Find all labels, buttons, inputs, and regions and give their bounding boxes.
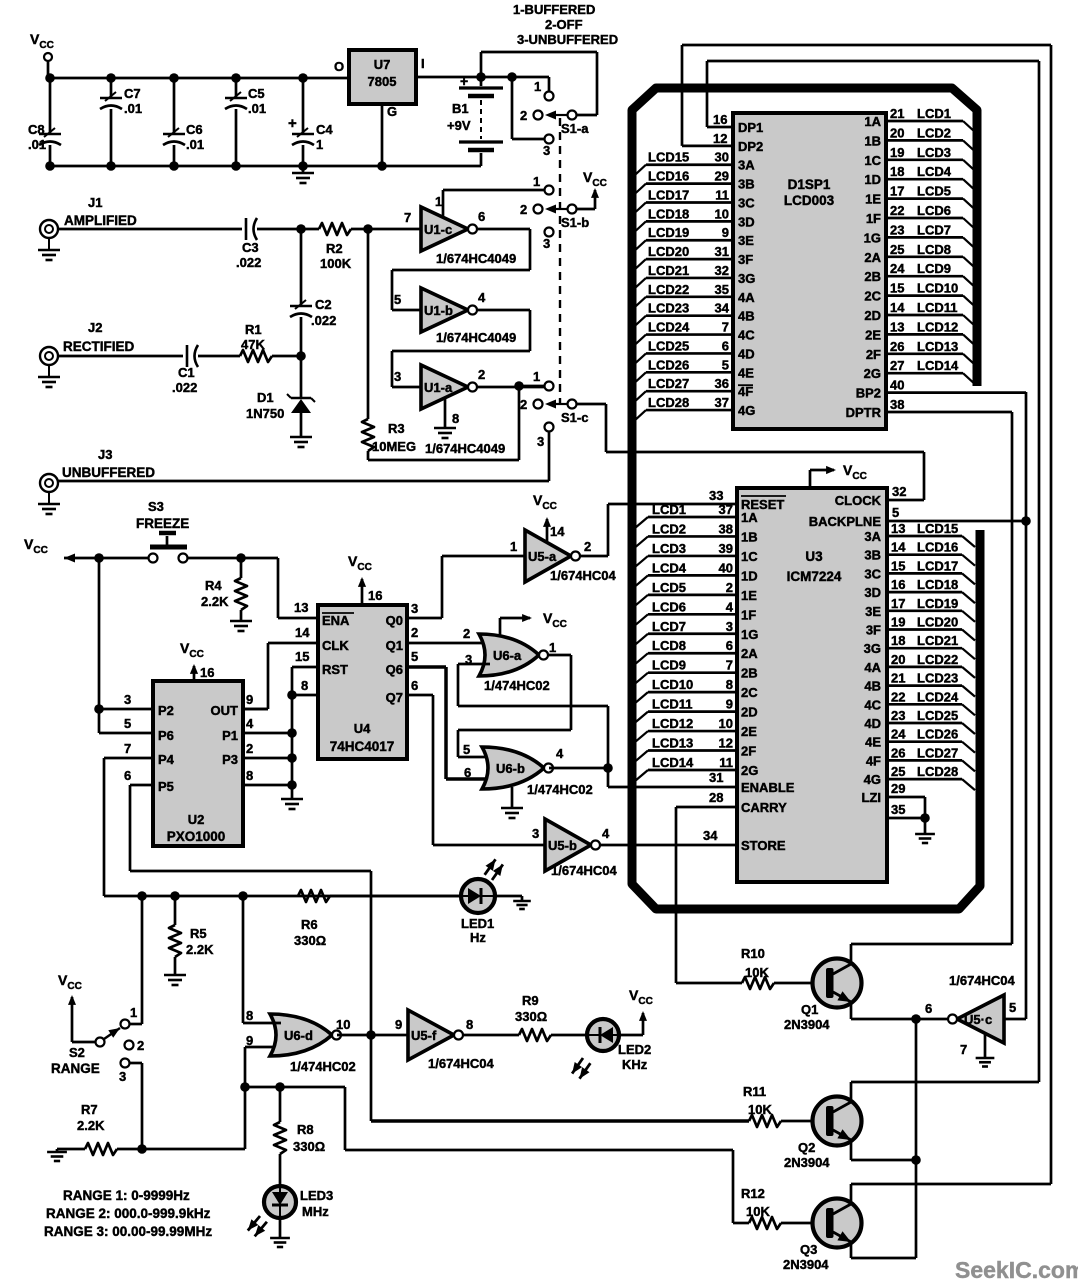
svg-text:+9V: +9V — [447, 118, 471, 133]
svg-text:3A: 3A — [864, 529, 881, 544]
svg-text:U6-a: U6-a — [493, 648, 522, 663]
svg-text:.01: .01 — [124, 101, 142, 116]
svg-text:3C: 3C — [864, 566, 881, 581]
svg-text:LCD5: LCD5 — [917, 184, 951, 199]
svg-text:1-BUFFERED: 1-BUFFERED — [513, 2, 595, 17]
svg-text:U7: U7 — [374, 57, 391, 72]
svg-text:18: 18 — [890, 164, 904, 179]
svg-text:1F: 1F — [741, 607, 756, 622]
svg-text:3: 3 — [124, 692, 131, 707]
svg-text:LCD14: LCD14 — [652, 755, 694, 770]
svg-text:LCD7: LCD7 — [917, 222, 951, 237]
svg-text:4E: 4E — [738, 365, 754, 380]
svg-text:R8: R8 — [297, 1122, 314, 1137]
svg-text:4: 4 — [602, 826, 610, 841]
svg-text:74HC4017: 74HC4017 — [330, 739, 395, 754]
svg-text:LCD003: LCD003 — [784, 193, 835, 208]
svg-text:LCD27: LCD27 — [648, 376, 689, 391]
svg-text:LCD11: LCD11 — [917, 300, 957, 315]
svg-text:5: 5 — [463, 742, 470, 757]
svg-text:R3: R3 — [388, 421, 405, 436]
svg-text:LCD3: LCD3 — [652, 541, 686, 556]
svg-text:3F: 3F — [866, 623, 881, 638]
svg-text:LCD15: LCD15 — [648, 150, 689, 165]
svg-text:1E: 1E — [865, 192, 881, 207]
svg-text:ENA: ENA — [322, 613, 350, 628]
svg-text:2D: 2D — [741, 705, 758, 720]
svg-text:U1-b: U1-b — [424, 303, 453, 318]
svg-text:R9: R9 — [522, 993, 539, 1008]
svg-text:8: 8 — [246, 768, 253, 783]
svg-text:I: I — [421, 56, 425, 71]
svg-text:1: 1 — [130, 1005, 137, 1020]
svg-text:R4: R4 — [205, 578, 222, 593]
svg-text:10: 10 — [719, 716, 733, 731]
svg-text:19: 19 — [890, 145, 904, 160]
svg-text:4: 4 — [478, 290, 486, 305]
svg-text:LCD25: LCD25 — [648, 338, 689, 353]
svg-text:23: 23 — [890, 222, 904, 237]
svg-text:1/674HC04: 1/674HC04 — [550, 568, 617, 583]
svg-text:30: 30 — [715, 150, 729, 165]
svg-text:3C: 3C — [738, 195, 755, 210]
svg-text:5: 5 — [1009, 1000, 1016, 1015]
svg-text:10K: 10K — [745, 965, 769, 980]
svg-text:2F: 2F — [866, 347, 881, 362]
svg-text:1/674HC4049: 1/674HC4049 — [425, 441, 505, 456]
svg-text:16: 16 — [891, 577, 905, 592]
svg-text:1D: 1D — [741, 568, 758, 583]
svg-text:3D: 3D — [738, 214, 755, 229]
svg-text:U4: U4 — [354, 721, 371, 736]
svg-text:35: 35 — [891, 802, 905, 817]
svg-text:U5-b: U5-b — [548, 838, 577, 853]
svg-text:330Ω: 330Ω — [293, 1139, 325, 1154]
svg-text:23: 23 — [891, 708, 905, 723]
svg-text:P2: P2 — [158, 703, 174, 718]
svg-text:R10: R10 — [741, 946, 765, 961]
svg-text:7805: 7805 — [368, 74, 397, 89]
svg-text:1: 1 — [533, 174, 540, 189]
svg-text:10K: 10K — [746, 1204, 770, 1219]
svg-text:LCD28: LCD28 — [917, 764, 958, 779]
svg-text:C7: C7 — [124, 86, 141, 101]
svg-text:2: 2 — [246, 741, 253, 756]
svg-text:LCD22: LCD22 — [648, 282, 689, 297]
svg-text:330Ω: 330Ω — [515, 1009, 547, 1024]
svg-text:2: 2 — [584, 539, 591, 554]
svg-text:LCD16: LCD16 — [648, 169, 689, 184]
svg-text:BP2: BP2 — [856, 386, 881, 401]
svg-text:C8: C8 — [28, 122, 45, 137]
svg-text:DP2: DP2 — [738, 139, 763, 154]
svg-text:7: 7 — [404, 210, 411, 225]
svg-text:2: 2 — [137, 1038, 144, 1053]
svg-text:3: 3 — [119, 1069, 126, 1084]
svg-text:17: 17 — [891, 596, 905, 611]
svg-text:Q2: Q2 — [798, 1140, 815, 1155]
svg-text:R1: R1 — [245, 322, 262, 337]
svg-text:16: 16 — [713, 112, 727, 127]
svg-text:C4: C4 — [316, 122, 333, 137]
svg-text:2B: 2B — [741, 666, 758, 681]
svg-text:1A: 1A — [864, 114, 881, 129]
svg-text:+: + — [288, 115, 297, 132]
svg-text:14: 14 — [891, 540, 906, 555]
svg-text:3A: 3A — [738, 158, 755, 173]
svg-text:LZI: LZI — [862, 790, 882, 805]
svg-text:1/474HC02: 1/474HC02 — [484, 678, 550, 693]
svg-text:RECTIFIED: RECTIFIED — [63, 339, 135, 354]
svg-text:1: 1 — [435, 194, 442, 209]
svg-text:LCD6: LCD6 — [652, 599, 686, 614]
svg-text:31: 31 — [709, 770, 723, 785]
svg-text:BACKPLNE: BACKPLNE — [809, 514, 882, 529]
svg-text:4B: 4B — [864, 679, 881, 694]
svg-text:LCD4: LCD4 — [917, 164, 952, 179]
svg-text:LCD19: LCD19 — [648, 225, 689, 240]
svg-text:O: O — [334, 59, 344, 74]
svg-text:26: 26 — [890, 339, 904, 354]
svg-text:8: 8 — [466, 1017, 473, 1032]
svg-text:LCD11: LCD11 — [652, 697, 692, 712]
svg-text:C5: C5 — [248, 86, 265, 101]
svg-text:2-OFF: 2-OFF — [545, 17, 583, 32]
svg-text:15: 15 — [891, 558, 905, 573]
svg-text:14: 14 — [295, 625, 310, 640]
svg-text:20: 20 — [890, 125, 904, 140]
svg-text:LCD19: LCD19 — [917, 596, 958, 611]
svg-text:3E: 3E — [865, 604, 881, 619]
svg-text:9: 9 — [246, 692, 253, 707]
svg-text:2D: 2D — [864, 308, 881, 323]
svg-text:PXO1000: PXO1000 — [167, 829, 226, 844]
svg-text:1/674HC04: 1/674HC04 — [949, 973, 1016, 988]
svg-text:22: 22 — [891, 689, 905, 704]
svg-text:1: 1 — [534, 79, 541, 94]
svg-text:3: 3 — [537, 434, 544, 449]
svg-text:LCD21: LCD21 — [648, 263, 689, 278]
svg-text:3E: 3E — [738, 233, 754, 248]
svg-text:U5-a: U5-a — [528, 549, 557, 564]
svg-text:25: 25 — [890, 242, 904, 257]
svg-text:4B: 4B — [738, 309, 755, 324]
svg-text:1: 1 — [549, 640, 556, 655]
svg-text:13: 13 — [891, 521, 905, 536]
svg-text:38: 38 — [890, 397, 904, 412]
svg-text:DPTR: DPTR — [846, 405, 882, 420]
svg-text:5: 5 — [124, 716, 131, 731]
svg-text:36: 36 — [715, 376, 729, 391]
svg-text:2E: 2E — [865, 327, 881, 342]
svg-text:32: 32 — [715, 263, 729, 278]
svg-text:LCD8: LCD8 — [652, 638, 686, 653]
svg-text:.022: .022 — [172, 380, 197, 395]
svg-text:2N3904: 2N3904 — [784, 1017, 830, 1032]
svg-text:+: + — [460, 73, 468, 89]
svg-text:.022: .022 — [311, 313, 336, 328]
svg-text:2: 2 — [520, 397, 527, 412]
svg-text:38: 38 — [719, 521, 733, 536]
svg-text:FREEZE: FREEZE — [136, 516, 189, 531]
svg-text:3B: 3B — [738, 177, 755, 192]
svg-text:RANGE 3: 00.00-99.99MHz: RANGE 3: 00.00-99.99MHz — [44, 1224, 212, 1239]
svg-text:2: 2 — [726, 580, 733, 595]
svg-text:47K: 47K — [241, 337, 265, 352]
svg-text:1/674HC04: 1/674HC04 — [428, 1056, 495, 1071]
svg-text:32: 32 — [892, 484, 906, 499]
svg-text:LCD24: LCD24 — [648, 320, 690, 335]
svg-text:6: 6 — [722, 338, 729, 353]
svg-text:26: 26 — [891, 745, 905, 760]
svg-text:8: 8 — [301, 678, 308, 693]
svg-text:D1: D1 — [257, 390, 274, 405]
svg-text:6: 6 — [478, 209, 485, 224]
svg-text:22: 22 — [890, 203, 904, 218]
svg-text:LCD1: LCD1 — [652, 502, 686, 517]
svg-text:330Ω: 330Ω — [294, 933, 326, 948]
svg-text:.01: .01 — [28, 137, 46, 152]
svg-text:LCD10: LCD10 — [652, 677, 693, 692]
svg-text:12: 12 — [719, 736, 733, 751]
svg-text:KHz: KHz — [622, 1057, 648, 1072]
svg-text:2: 2 — [520, 202, 527, 217]
svg-text:2.2K: 2.2K — [77, 1118, 105, 1133]
svg-text:1C: 1C — [741, 549, 758, 564]
svg-text:LCD17: LCD17 — [917, 558, 958, 573]
svg-text:Q7: Q7 — [386, 690, 403, 705]
svg-text:1N750: 1N750 — [246, 406, 284, 421]
svg-text:LCD25: LCD25 — [917, 708, 958, 723]
svg-text:2B: 2B — [864, 269, 881, 284]
svg-text:3: 3 — [394, 369, 401, 384]
svg-text:S3: S3 — [148, 499, 164, 514]
svg-text:9: 9 — [395, 1017, 402, 1032]
svg-text:2F: 2F — [741, 744, 756, 759]
svg-text:10: 10 — [336, 1017, 350, 1032]
svg-text:U6-d: U6-d — [284, 1028, 313, 1043]
svg-text:U5-f: U5-f — [411, 1028, 437, 1043]
svg-text:LCD26: LCD26 — [917, 727, 958, 742]
svg-text:3: 3 — [411, 601, 418, 616]
svg-text:6: 6 — [726, 638, 733, 653]
svg-text:LCD23: LCD23 — [917, 671, 958, 686]
svg-text:1E: 1E — [741, 588, 757, 603]
svg-text:LCD28: LCD28 — [648, 395, 689, 410]
svg-text:31: 31 — [715, 244, 729, 259]
svg-text:9: 9 — [246, 1033, 253, 1048]
svg-text:2N3904: 2N3904 — [783, 1257, 829, 1272]
svg-text:LCD22: LCD22 — [917, 652, 958, 667]
svg-text:P4: P4 — [158, 752, 175, 767]
svg-text:LCD8: LCD8 — [917, 242, 951, 257]
svg-text:16: 16 — [368, 588, 382, 603]
svg-text:1B: 1B — [864, 133, 881, 148]
svg-text:29: 29 — [715, 169, 729, 184]
svg-text:1C: 1C — [864, 153, 881, 168]
svg-text:2: 2 — [463, 626, 470, 641]
svg-text:2N3904: 2N3904 — [784, 1155, 830, 1170]
svg-text:2: 2 — [411, 625, 418, 640]
svg-text:3G: 3G — [738, 271, 755, 286]
svg-text:10MEG: 10MEG — [372, 439, 416, 454]
svg-text:S2: S2 — [69, 1045, 85, 1060]
svg-text:D1SP1: D1SP1 — [788, 177, 831, 192]
svg-text:33: 33 — [709, 488, 723, 503]
svg-text:2G: 2G — [741, 763, 758, 778]
svg-text:6: 6 — [124, 768, 131, 783]
svg-text:1A: 1A — [741, 510, 758, 525]
svg-text:S1-b: S1-b — [561, 215, 589, 230]
svg-text:LCD10: LCD10 — [917, 281, 958, 296]
svg-text:35: 35 — [715, 282, 729, 297]
svg-text:13: 13 — [294, 600, 308, 615]
svg-text:Q6: Q6 — [386, 662, 403, 677]
svg-text:LED2: LED2 — [618, 1042, 651, 1057]
svg-text:LCD2: LCD2 — [917, 125, 951, 140]
svg-text:2A: 2A — [864, 250, 881, 265]
svg-text:4G: 4G — [864, 772, 881, 787]
svg-text:5: 5 — [722, 357, 729, 372]
svg-text:LCD23: LCD23 — [648, 301, 689, 316]
svg-text:U1-c: U1-c — [424, 222, 452, 237]
svg-text:RANGE 2: 000.0-999.9kHz: RANGE 2: 000.0-999.9kHz — [46, 1206, 211, 1221]
svg-text:MHz: MHz — [302, 1204, 329, 1219]
svg-text:1D: 1D — [864, 172, 881, 187]
svg-text:2: 2 — [478, 367, 485, 382]
svg-text:R12: R12 — [741, 1186, 765, 1201]
svg-text:1: 1 — [510, 539, 517, 554]
svg-text:1G: 1G — [741, 627, 758, 642]
svg-text:1/674HC4049: 1/674HC4049 — [436, 251, 516, 266]
svg-text:RANGE 1: 0-9999Hz: RANGE 1: 0-9999Hz — [63, 1188, 190, 1203]
svg-text:14: 14 — [890, 300, 905, 315]
svg-text:LCD13: LCD13 — [917, 339, 958, 354]
svg-text:4A: 4A — [864, 660, 881, 675]
svg-text:LCD4: LCD4 — [652, 560, 687, 575]
svg-text:18: 18 — [891, 633, 905, 648]
svg-text:8: 8 — [726, 677, 733, 692]
svg-text:2E: 2E — [741, 724, 757, 739]
svg-text:10K: 10K — [748, 1102, 772, 1117]
svg-text:C1: C1 — [178, 365, 195, 380]
svg-text:24: 24 — [891, 727, 906, 742]
svg-text:37: 37 — [715, 395, 729, 410]
svg-text:.022: .022 — [236, 255, 261, 270]
svg-text:3G: 3G — [864, 641, 881, 656]
svg-text:STORE: STORE — [741, 838, 786, 853]
svg-text:7: 7 — [124, 741, 131, 756]
svg-text:LCD20: LCD20 — [648, 244, 689, 259]
svg-text:2.2K: 2.2K — [186, 942, 214, 957]
svg-text:100K: 100K — [320, 256, 352, 271]
svg-text:LCD14: LCD14 — [917, 358, 959, 373]
svg-text:25: 25 — [891, 764, 905, 779]
svg-text:LCD17: LCD17 — [648, 187, 689, 202]
svg-text:37: 37 — [719, 502, 733, 517]
svg-text:UNBUFFERED: UNBUFFERED — [62, 465, 155, 480]
svg-text:LCD20: LCD20 — [917, 615, 958, 630]
svg-text:3: 3 — [532, 826, 539, 841]
svg-text:17: 17 — [890, 184, 904, 199]
svg-text:4F: 4F — [738, 384, 753, 399]
svg-text:4: 4 — [726, 599, 734, 614]
svg-text:4: 4 — [246, 716, 254, 731]
svg-text:LCD24: LCD24 — [917, 689, 959, 704]
svg-text:J3: J3 — [98, 447, 112, 462]
svg-text:14: 14 — [550, 524, 565, 539]
svg-text:4D: 4D — [864, 716, 881, 731]
svg-text:1: 1 — [533, 369, 540, 384]
svg-text:21: 21 — [890, 106, 904, 121]
svg-text:R11: R11 — [743, 1084, 766, 1099]
svg-text:U5·c: U5·c — [964, 1012, 992, 1027]
svg-text:29: 29 — [891, 781, 905, 796]
svg-text:Q3: Q3 — [800, 1242, 817, 1257]
svg-text:16: 16 — [200, 665, 214, 680]
svg-text:LCD1: LCD1 — [917, 106, 951, 121]
svg-text:ICM7224: ICM7224 — [787, 569, 842, 584]
svg-text:RST: RST — [322, 662, 348, 677]
svg-text:3D: 3D — [864, 585, 881, 600]
svg-text:4E: 4E — [865, 735, 881, 750]
svg-text:LCD3: LCD3 — [917, 145, 951, 160]
svg-text:40: 40 — [890, 378, 904, 393]
svg-text:13: 13 — [890, 319, 904, 334]
svg-text:2C: 2C — [741, 685, 758, 700]
svg-text:J2: J2 — [88, 320, 102, 335]
svg-text:LCD9: LCD9 — [652, 658, 686, 673]
svg-text:9: 9 — [722, 225, 729, 240]
svg-text:LCD21: LCD21 — [917, 633, 958, 648]
svg-text:6: 6 — [464, 765, 471, 780]
svg-text:LCD26: LCD26 — [648, 357, 689, 372]
svg-text:4C: 4C — [864, 697, 881, 712]
svg-text:10: 10 — [715, 206, 729, 221]
svg-text:LCD27: LCD27 — [917, 745, 958, 760]
svg-text:J1: J1 — [88, 195, 102, 210]
svg-text:1G: 1G — [864, 230, 881, 245]
svg-text:C3: C3 — [242, 240, 259, 255]
svg-text:S1-c: S1-c — [561, 410, 588, 425]
svg-text:11: 11 — [719, 755, 733, 770]
svg-text:3B: 3B — [864, 548, 881, 563]
svg-text:CLOCK: CLOCK — [835, 493, 882, 508]
svg-text:28: 28 — [709, 790, 723, 805]
svg-text:3: 3 — [543, 236, 550, 251]
svg-text:LCD12: LCD12 — [652, 716, 693, 731]
svg-text:R6: R6 — [301, 917, 318, 932]
svg-text:R7: R7 — [81, 1102, 98, 1117]
svg-text:21: 21 — [891, 671, 905, 686]
svg-text:6: 6 — [411, 678, 418, 693]
svg-text:3: 3 — [543, 143, 550, 158]
svg-text:2: 2 — [520, 108, 527, 123]
svg-text:39: 39 — [719, 541, 733, 556]
svg-text:1/674HC04: 1/674HC04 — [551, 863, 618, 878]
svg-text:LCD6: LCD6 — [917, 203, 951, 218]
svg-text:U6-b: U6-b — [496, 761, 525, 776]
svg-text:Q1: Q1 — [386, 638, 403, 653]
svg-text:LCD12: LCD12 — [917, 319, 958, 334]
svg-text:.01: .01 — [248, 101, 266, 116]
svg-text:R5: R5 — [190, 926, 207, 941]
svg-text:15: 15 — [890, 281, 904, 296]
svg-text:LCD9: LCD9 — [917, 261, 951, 276]
svg-text:1/674HC4049: 1/674HC4049 — [436, 330, 516, 345]
svg-text:B1: B1 — [452, 101, 469, 116]
svg-text:LCD5: LCD5 — [652, 580, 686, 595]
